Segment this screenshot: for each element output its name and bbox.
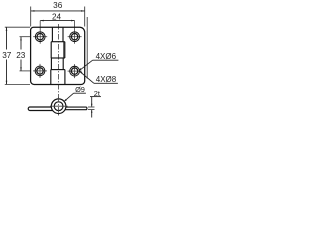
knuckle segment 3 (50, 58, 52, 70)
dimension 24 (40, 20, 74, 22)
hole bottom-left (35, 66, 45, 76)
knuckle barrel circle (51, 99, 66, 114)
projection line right (86, 17, 88, 79)
pin axis centerline (57, 24, 59, 116)
knuckle segment 2 (50, 42, 52, 58)
extension lines for dim 37 (5, 26, 30, 28)
svg-text:24: 24 (52, 13, 62, 22)
hole bottom-right (70, 66, 80, 76)
pin hole circle (54, 102, 63, 111)
hole centerlines top-left (33, 36, 47, 38)
side view left leaf (28, 107, 55, 111)
svg-text:4XØ6: 4XØ6 (96, 52, 117, 61)
dimension 23 (20, 37, 22, 50)
svg-text:4XØ8: 4XØ8 (96, 75, 117, 84)
hole centerlines top-right (68, 36, 82, 38)
knuckle segment 4 (50, 70, 52, 85)
svg-text:36: 36 (53, 1, 63, 10)
dimension 2t (88, 106, 95, 108)
hole centerlines bottom-left (33, 70, 47, 72)
hole top-left (35, 32, 45, 42)
side view right leaf (60, 107, 87, 110)
label 4XO6 leader (79, 60, 92, 70)
svg-text:23: 23 (16, 51, 26, 60)
dimension 37 (6, 27, 8, 49)
knuckle vertical centerline (57, 97, 59, 115)
plate outline (31, 27, 85, 84)
knuckle horizontal centerline (50, 105, 68, 107)
label 4XO8 leader (80, 72, 94, 84)
svg-text:Ø9: Ø9 (75, 85, 85, 94)
label O9 leader (65, 93, 74, 101)
hole top-right (70, 32, 80, 42)
hole centerlines bottom-right (68, 70, 82, 72)
dimension 36 (31, 10, 85, 12)
knuckle segment 1 (51, 27, 53, 41)
svg-text:2t: 2t (94, 89, 100, 98)
extension lines for dim 36 (30, 7, 32, 27)
svg-text:37: 37 (2, 51, 12, 60)
